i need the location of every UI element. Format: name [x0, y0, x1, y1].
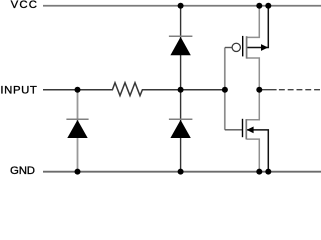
svg-text:GND: GND [10, 165, 35, 177]
svg-text:VCC: VCC [11, 0, 37, 11]
svg-text:INPUT: INPUT [0, 85, 37, 97]
